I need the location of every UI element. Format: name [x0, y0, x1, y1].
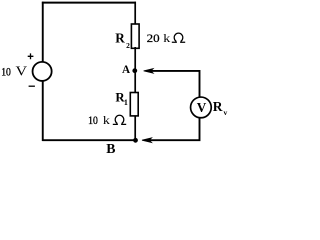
- svg-text:2: 2: [126, 41, 130, 50]
- svg-text:20: 20: [147, 33, 160, 45]
- svg-text:R: R: [115, 31, 125, 46]
- minus sign of source: [29, 85, 35, 87]
- voltmeter V: [191, 97, 212, 118]
- node A: [132, 68, 137, 73]
- resistor R1: [130, 93, 138, 116]
- wire: bottom horizontal: [42, 139, 136, 141]
- resistor R2: [131, 24, 139, 48]
- node B: [133, 138, 138, 143]
- svg-text:V: V: [197, 100, 207, 115]
- svg-text:A: A: [122, 64, 130, 76]
- wire: voltmeter to bottom corner: [149, 117, 200, 140]
- wire: node A to R1: [134, 70, 136, 93]
- wire: arrow A line to right branch: [152, 71, 200, 98]
- wire: R1 to node B: [134, 116, 136, 142]
- wire: top horizontal: [42, 2, 136, 4]
- svg-text:10: 10: [1, 66, 11, 78]
- wire: right branch top stub: [134, 2, 136, 24]
- arrow to node B: [142, 138, 152, 143]
- svg-text:k: k: [163, 33, 170, 45]
- svg-text:R: R: [213, 99, 223, 114]
- svg-text:v: v: [224, 108, 228, 117]
- svg-text:k: k: [103, 115, 110, 127]
- arrow to node A: [144, 69, 154, 74]
- plus sign of source: [28, 53, 34, 59]
- svg-text:1: 1: [124, 98, 128, 107]
- wire: left vertical upper: [42, 2, 44, 63]
- voltage source V1 10 V: [33, 62, 52, 81]
- svg-text:V: V: [16, 64, 28, 79]
- wire: left vertical lower: [42, 81, 44, 141]
- svg-text:10: 10: [88, 115, 98, 127]
- svg-text:B: B: [106, 141, 115, 156]
- wire: R2 to node A: [134, 47, 136, 71]
